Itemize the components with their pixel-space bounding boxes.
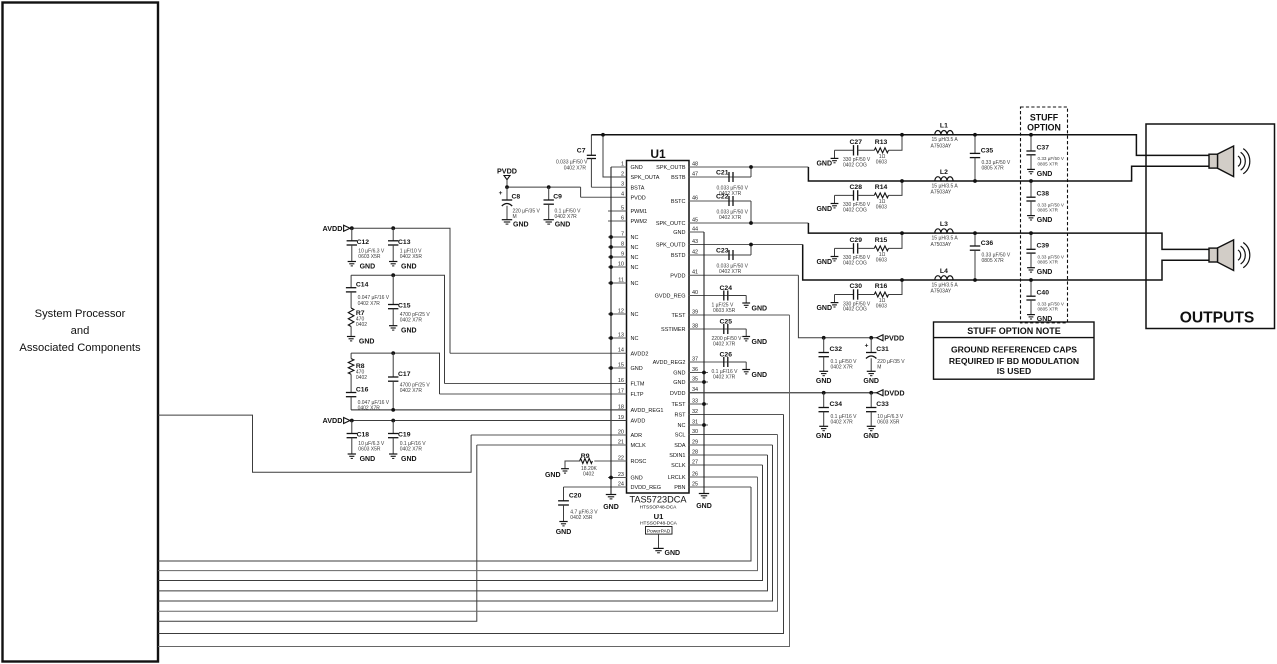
node C13: [391, 226, 395, 230]
svg-text:ROSC: ROSC: [631, 459, 647, 465]
svg-text:AVDD: AVDD: [323, 224, 343, 233]
capacitor C31: [870, 338, 872, 353]
svg-text:U1: U1: [650, 147, 666, 161]
wire SCLK: [158, 465, 763, 581]
svg-text:0805 X7R: 0805 X7R: [1038, 307, 1059, 312]
wire R9 to ground: [565, 461, 580, 469]
svg-text:C40: C40: [1037, 290, 1050, 297]
svg-text:GND: GND: [631, 476, 643, 482]
inductor L4: [935, 276, 953, 280]
capacitor C15: [392, 275, 394, 304]
svg-text:0805 X7R: 0805 X7R: [982, 258, 1005, 264]
svg-text:NC: NC: [678, 423, 686, 429]
svg-text:A7503AY: A7503AY: [931, 190, 952, 196]
svg-text:C20: C20: [569, 493, 582, 500]
svg-text:C28: C28: [850, 184, 863, 191]
svg-text:PWM2: PWM2: [631, 219, 648, 225]
svg-text:0402 X7R: 0402 X7R: [713, 374, 736, 380]
wire PVDD rail: [507, 186, 581, 188]
ground C25: [742, 336, 750, 338]
capacitor C14: [350, 275, 352, 288]
svg-text:R13: R13: [875, 139, 888, 146]
svg-text:C37: C37: [1037, 144, 1050, 151]
ground C31: [867, 370, 876, 372]
svg-text:FLTM: FLTM: [631, 382, 645, 388]
svg-text:GND: GND: [1037, 269, 1053, 276]
wire AVDD rail 1: [350, 228, 450, 353]
capacitor C23: [728, 250, 730, 260]
svg-text:0402 X7R: 0402 X7R: [713, 341, 736, 347]
capacitor C26: [723, 357, 725, 367]
node C17 bottom: [391, 408, 395, 412]
resistor R9: [580, 459, 593, 464]
svg-text:IS USED: IS USED: [997, 366, 1031, 376]
node snubber C28: [900, 179, 904, 183]
wire RST: [158, 415, 784, 634]
svg-text:L4: L4: [940, 268, 948, 275]
svg-text:0402: 0402: [356, 375, 367, 381]
wire AVDD_REG1 net: [351, 409, 626, 411]
svg-text:0402: 0402: [583, 472, 594, 478]
capacitor C28: [835, 194, 854, 196]
capacitor C7: [590, 135, 592, 156]
svg-text:GND: GND: [665, 550, 681, 557]
capacitor C24: [723, 291, 725, 301]
power flag AVDD 2: [344, 418, 350, 424]
svg-text:C32: C32: [830, 346, 843, 353]
svg-text:0402 COG: 0402 COG: [843, 208, 867, 214]
svg-text:SCL: SCL: [675, 433, 686, 439]
svg-text:PWM1: PWM1: [631, 209, 648, 215]
ground C12: [348, 261, 356, 263]
svg-text:BSTA: BSTA: [631, 185, 645, 191]
wire R13 to rail: [889, 135, 903, 151]
svg-text:REQUIRED IF BD MODULATION: REQUIRED IF BD MODULATION: [949, 356, 1079, 366]
svg-text:GND: GND: [401, 264, 417, 271]
svg-text:L3: L3: [940, 221, 948, 228]
wire R14 to rail: [889, 181, 903, 195]
ground C33: [867, 425, 876, 427]
wire R16 to rail: [889, 280, 903, 295]
left GND bus: [610, 167, 612, 495]
svg-text:GND: GND: [631, 165, 643, 171]
svg-text:C23: C23: [716, 247, 729, 254]
wire speaker terminal top: [1209, 154, 1218, 168]
svg-text:0402 X7R: 0402 X7R: [831, 364, 854, 370]
svg-text:GND: GND: [555, 222, 571, 229]
svg-text:0603: 0603: [876, 160, 887, 166]
power flag PVDD: [504, 176, 510, 180]
svg-text:NC: NC: [631, 235, 639, 241]
svg-text:15 µH/3.5 A: 15 µH/3.5 A: [932, 183, 959, 189]
node PVDD-C9: [547, 185, 551, 189]
svg-text:Associated Components: Associated Components: [19, 342, 141, 354]
svg-text:BSTB: BSTB: [671, 175, 686, 181]
ground C38: [1027, 215, 1035, 217]
svg-text:GND: GND: [603, 504, 619, 511]
node snubber C30: [900, 278, 904, 282]
svg-text:GROUND REFERENCED CAPS: GROUND REFERENCED CAPS: [951, 345, 1077, 355]
inductor L1: [935, 131, 953, 135]
svg-text:C34: C34: [830, 401, 843, 408]
svg-text:15 µH/3.5 A: 15 µH/3.5 A: [932, 236, 959, 242]
svg-text:0603: 0603: [876, 304, 887, 310]
ground R7: [347, 336, 355, 338]
svg-text:GND: GND: [752, 372, 768, 379]
svg-text:TEST: TEST: [671, 402, 686, 408]
svg-text:0603 X5R: 0603 X5R: [713, 308, 736, 314]
svg-text:PVDD: PVDD: [670, 273, 685, 279]
svg-text:AVDD_REG1: AVDD_REG1: [631, 408, 664, 414]
svg-text:0402 X5R: 0402 X5R: [570, 515, 593, 521]
svg-text:AVDD_REG2: AVDD_REG2: [653, 360, 686, 366]
capacitor C18: [351, 421, 353, 434]
svg-text:BSTC: BSTC: [671, 199, 686, 205]
svg-text:GND: GND: [816, 161, 832, 168]
svg-text:GND: GND: [631, 366, 643, 372]
svg-text:GND: GND: [359, 339, 375, 346]
svg-text:0603 X5R: 0603 X5R: [877, 419, 900, 425]
svg-text:+: +: [499, 190, 503, 197]
svg-text:STUFF OPTION NOTE: STUFF OPTION NOTE: [967, 326, 1061, 336]
svg-text:OPTION: OPTION: [1027, 123, 1061, 133]
svg-text:C33: C33: [876, 401, 889, 408]
capacitor C20: [563, 487, 565, 501]
ground left bus: [606, 494, 616, 496]
svg-text:C36: C36: [981, 240, 994, 247]
svg-text:DVDD_REG: DVDD_REG: [631, 485, 662, 491]
svg-text:15 µH/3.5 A: 15 µH/3.5 A: [932, 282, 959, 288]
wire AVDD rail 2: [350, 420, 627, 422]
svg-text:0402 X7R: 0402 X7R: [719, 215, 742, 221]
svg-text:C15: C15: [398, 303, 411, 310]
svg-text:0402 X7R: 0402 X7R: [358, 406, 381, 412]
svg-text:GND: GND: [673, 230, 685, 236]
node snubber C29: [900, 231, 904, 235]
svg-text:GND: GND: [696, 503, 712, 510]
resistor R15: [874, 246, 888, 251]
ground R9: [561, 468, 569, 470]
inductor L3: [935, 229, 953, 233]
capacitor C33: [870, 393, 872, 408]
svg-text:C25: C25: [720, 319, 733, 326]
svg-text:M: M: [513, 214, 517, 220]
ground C9: [544, 219, 554, 221]
svg-text:LRCLK: LRCLK: [668, 475, 686, 481]
svg-text:TEST: TEST: [671, 313, 686, 319]
svg-text:R9: R9: [581, 453, 590, 460]
svg-text:GND: GND: [752, 306, 768, 313]
ground C26: [742, 369, 750, 371]
wire PVDD to node: [506, 180, 508, 187]
svg-text:C35: C35: [981, 147, 994, 154]
svg-text:GND: GND: [360, 456, 376, 463]
outputs block: [1146, 124, 1275, 329]
svg-text:SPK_OUTB: SPK_OUTB: [656, 165, 686, 171]
svg-text:PVDD: PVDD: [631, 195, 646, 201]
wire DVDD rail: [689, 392, 877, 394]
wire SPK_OUTC rail: [808, 223, 1209, 249]
svg-text:DVDD: DVDD: [670, 391, 686, 397]
capacitor C34: [823, 393, 825, 408]
svg-text:PBN: PBN: [674, 485, 685, 491]
svg-text:0402 X7R: 0402 X7R: [564, 165, 587, 171]
capacitor C29: [835, 247, 854, 249]
svg-text:GND: GND: [673, 371, 685, 377]
wire PBN: [158, 487, 751, 561]
svg-text:GND: GND: [816, 378, 832, 385]
resistor R16: [874, 292, 888, 297]
ground C15: [389, 325, 397, 327]
node C12: [350, 226, 354, 230]
svg-text:STUFF: STUFF: [1030, 113, 1059, 123]
svg-text:0402 COG: 0402 COG: [843, 163, 867, 169]
svg-text:220 µF/35 V: 220 µF/35 V: [513, 209, 541, 215]
stuff option dashed box: [1021, 107, 1068, 323]
node C34: [822, 391, 826, 395]
svg-text:0603 X5R: 0603 X5R: [358, 254, 381, 260]
capacitor C19: [392, 421, 394, 434]
svg-text:System Processor: System Processor: [35, 308, 126, 320]
svg-text:0402 COG: 0402 COG: [843, 307, 867, 313]
svg-text:GVDD_REG: GVDD_REG: [655, 294, 686, 300]
svg-text:GND: GND: [401, 328, 417, 335]
svg-text:C7: C7: [577, 147, 586, 154]
capacitor C30: [835, 294, 854, 296]
power flag AVDD: [344, 225, 350, 231]
svg-text:NC: NC: [631, 312, 639, 318]
svg-text:C13: C13: [398, 239, 411, 246]
wire SCL: [158, 435, 778, 612]
svg-text:C24: C24: [720, 285, 733, 292]
capacitor C36: [974, 233, 976, 246]
svg-text:C22: C22: [716, 193, 729, 200]
svg-text:0402 COG: 0402 COG: [843, 261, 867, 267]
svg-text:M: M: [877, 364, 881, 370]
svg-text:GND: GND: [360, 264, 376, 271]
wire MCLK riser: [158, 445, 477, 621]
node C22 bootstrap: [749, 221, 753, 225]
svg-text:NC: NC: [631, 265, 639, 271]
ground C24: [742, 302, 750, 304]
capacitor C32: [823, 338, 825, 353]
ground C28: [834, 195, 836, 203]
capacitor C25: [723, 324, 725, 334]
svg-text:0402 X7R: 0402 X7R: [400, 447, 423, 453]
capacitor C27: [835, 149, 854, 151]
svg-text:R14: R14: [875, 184, 888, 191]
power flag DVDD: [877, 390, 883, 396]
svg-text:L2: L2: [940, 169, 948, 176]
ground C8: [502, 219, 512, 221]
svg-text:GND: GND: [752, 339, 768, 346]
node PVDD-C8: [505, 185, 509, 189]
svg-text:R15: R15: [875, 237, 888, 244]
svg-text:GND: GND: [513, 222, 529, 229]
svg-text:C9: C9: [553, 194, 562, 201]
svg-text:L1: L1: [940, 123, 948, 130]
power flag PVDD right: [877, 335, 883, 341]
svg-text:C17: C17: [398, 371, 411, 378]
wire SPK_OUTA riser from pin 2: [603, 135, 627, 177]
node C21 bootstrap: [749, 165, 753, 169]
svg-text:SPK_OUTC: SPK_OUTC: [656, 221, 686, 227]
wire SDIN1: [158, 455, 768, 591]
capacitor C22: [728, 196, 730, 206]
svg-text:SSTIMER: SSTIMER: [661, 327, 685, 333]
svg-text:SDA: SDA: [674, 443, 686, 449]
svg-text:and: and: [71, 325, 90, 337]
node C15: [391, 273, 395, 277]
svg-text:0402 X7R: 0402 X7R: [400, 318, 423, 324]
ground C40: [1027, 314, 1035, 316]
svg-text:GND: GND: [816, 259, 832, 266]
node C31: [869, 336, 873, 340]
wire PVDD rail right: [798, 275, 876, 338]
svg-text:C27: C27: [850, 139, 863, 146]
svg-text:GND: GND: [401, 456, 417, 463]
node C18: [350, 419, 354, 423]
svg-text:GND: GND: [816, 433, 832, 440]
svg-text:C12: C12: [357, 239, 370, 246]
wire ADR from system processor: [158, 415, 471, 472]
svg-text:0805 X7R: 0805 X7R: [982, 165, 1005, 171]
ground C27: [834, 150, 836, 158]
svg-text:SCLK: SCLK: [671, 463, 686, 469]
svg-text:SPK_OUTD: SPK_OUTD: [656, 243, 686, 249]
wire powerpad to ground: [658, 534, 660, 548]
node C32: [822, 336, 826, 340]
svg-text:0402: 0402: [356, 322, 367, 328]
svg-text:PowerPAD: PowerPAD: [647, 529, 671, 535]
svg-text:AVDD: AVDD: [323, 416, 343, 425]
svg-text:A7503AY: A7503AY: [931, 289, 952, 295]
system processor block: [3, 3, 159, 662]
resistor R8: [350, 353, 352, 359]
svg-text:TAS5723DCA: TAS5723DCA: [629, 495, 687, 505]
svg-text:OUTPUTS: OUTPUTS: [1180, 310, 1255, 327]
svg-text:NC: NC: [631, 336, 639, 342]
svg-text:C14: C14: [356, 282, 369, 289]
svg-text:C19: C19: [398, 432, 411, 439]
ground right bus: [699, 493, 709, 495]
wire R7 to ground: [350, 327, 352, 337]
node C17 top: [391, 351, 395, 355]
svg-text:0402 X5R: 0402 X5R: [400, 254, 423, 260]
svg-text:0805 X7R: 0805 X7R: [1038, 161, 1059, 166]
capacitor C38: [1030, 181, 1032, 197]
wire TEST: [158, 315, 790, 647]
ground C37: [1027, 168, 1035, 170]
wire R15 to rail: [889, 233, 903, 248]
node SPK_OUTA: [601, 133, 605, 137]
svg-text:0805 X7R: 0805 X7R: [1038, 260, 1059, 265]
ground C30: [834, 295, 836, 303]
node snubber C27: [900, 133, 904, 137]
svg-text:C39: C39: [1037, 243, 1050, 250]
resistor R13: [874, 148, 888, 153]
svg-text:GND: GND: [816, 305, 832, 312]
svg-text:NC: NC: [631, 245, 639, 251]
ground powerpad: [653, 547, 663, 549]
ground C39: [1027, 267, 1035, 269]
capacitor C37: [1030, 135, 1032, 151]
svg-text:A7503AY: A7503AY: [931, 242, 952, 248]
svg-text:PVDD: PVDD: [884, 333, 904, 342]
svg-text:0805 X7R: 0805 X7R: [1038, 208, 1059, 213]
wire FLTM net: [351, 275, 444, 383]
svg-text:A7503AY: A7503AY: [931, 144, 952, 150]
svg-text:0402 X7R: 0402 X7R: [831, 419, 854, 425]
resistor R14: [874, 193, 888, 198]
svg-text:GND: GND: [863, 433, 879, 440]
svg-text:0603: 0603: [876, 205, 887, 211]
node C23 bootstrap: [749, 243, 753, 247]
ground C29: [834, 248, 836, 256]
svg-text:NC: NC: [631, 255, 639, 261]
capacitor C8: [506, 187, 508, 200]
capacitor C16: [350, 374, 352, 392]
node C19: [391, 419, 395, 423]
svg-text:NC: NC: [631, 281, 639, 287]
capacitor C21: [728, 172, 730, 182]
svg-text:+: +: [865, 343, 869, 350]
svg-text:0402 X7R: 0402 X7R: [555, 214, 578, 220]
svg-text:U1: U1: [654, 512, 664, 521]
ground C34: [819, 425, 828, 427]
capacitor C13: [392, 228, 394, 241]
inductor L2: [935, 177, 953, 181]
ground C19: [389, 453, 397, 455]
svg-text:GND: GND: [1037, 316, 1053, 323]
svg-text:C16: C16: [356, 386, 369, 393]
svg-text:FLTP: FLTP: [631, 392, 644, 398]
svg-text:GND: GND: [1037, 171, 1053, 178]
svg-text:C26: C26: [720, 352, 733, 359]
svg-text:0402 X7R: 0402 X7R: [400, 388, 423, 394]
stuff option note box: [934, 322, 1095, 379]
svg-text:0603: 0603: [876, 258, 887, 264]
wire SPK_OUTA rail: [591, 135, 1209, 156]
wire to pin 4: [580, 187, 582, 197]
svg-text:GND: GND: [673, 380, 685, 386]
svg-text:220 µF/35 V: 220 µF/35 V: [877, 359, 905, 365]
svg-text:GND: GND: [863, 378, 879, 385]
svg-text:MCLK: MCLK: [631, 443, 647, 449]
IC U1 TAS5723DCA body: [627, 161, 690, 494]
right GND bus: [703, 232, 705, 494]
wire FLTP net: [351, 353, 439, 394]
wire LRCLK: [158, 477, 758, 571]
svg-text:RST: RST: [675, 413, 687, 419]
svg-text:C18: C18: [357, 432, 370, 439]
ground C13: [389, 261, 397, 263]
svg-text:15 µH/3.5 A: 15 µH/3.5 A: [932, 137, 959, 143]
svg-text:AVDD2: AVDD2: [631, 351, 649, 357]
ground C20: [559, 521, 567, 523]
resistor R7: [348, 308, 354, 327]
svg-text:DVDD: DVDD: [884, 388, 904, 397]
capacitor C12: [351, 228, 353, 241]
svg-text:GND: GND: [1037, 217, 1053, 224]
ground C18: [348, 453, 356, 455]
ground C32: [819, 370, 828, 372]
svg-text:ADR: ADR: [631, 433, 643, 439]
svg-text:C8: C8: [512, 194, 521, 201]
capacitor C9: [548, 187, 550, 200]
svg-text:HTSSOP48-DCA: HTSSOP48-DCA: [640, 505, 678, 511]
node C33: [869, 391, 873, 395]
